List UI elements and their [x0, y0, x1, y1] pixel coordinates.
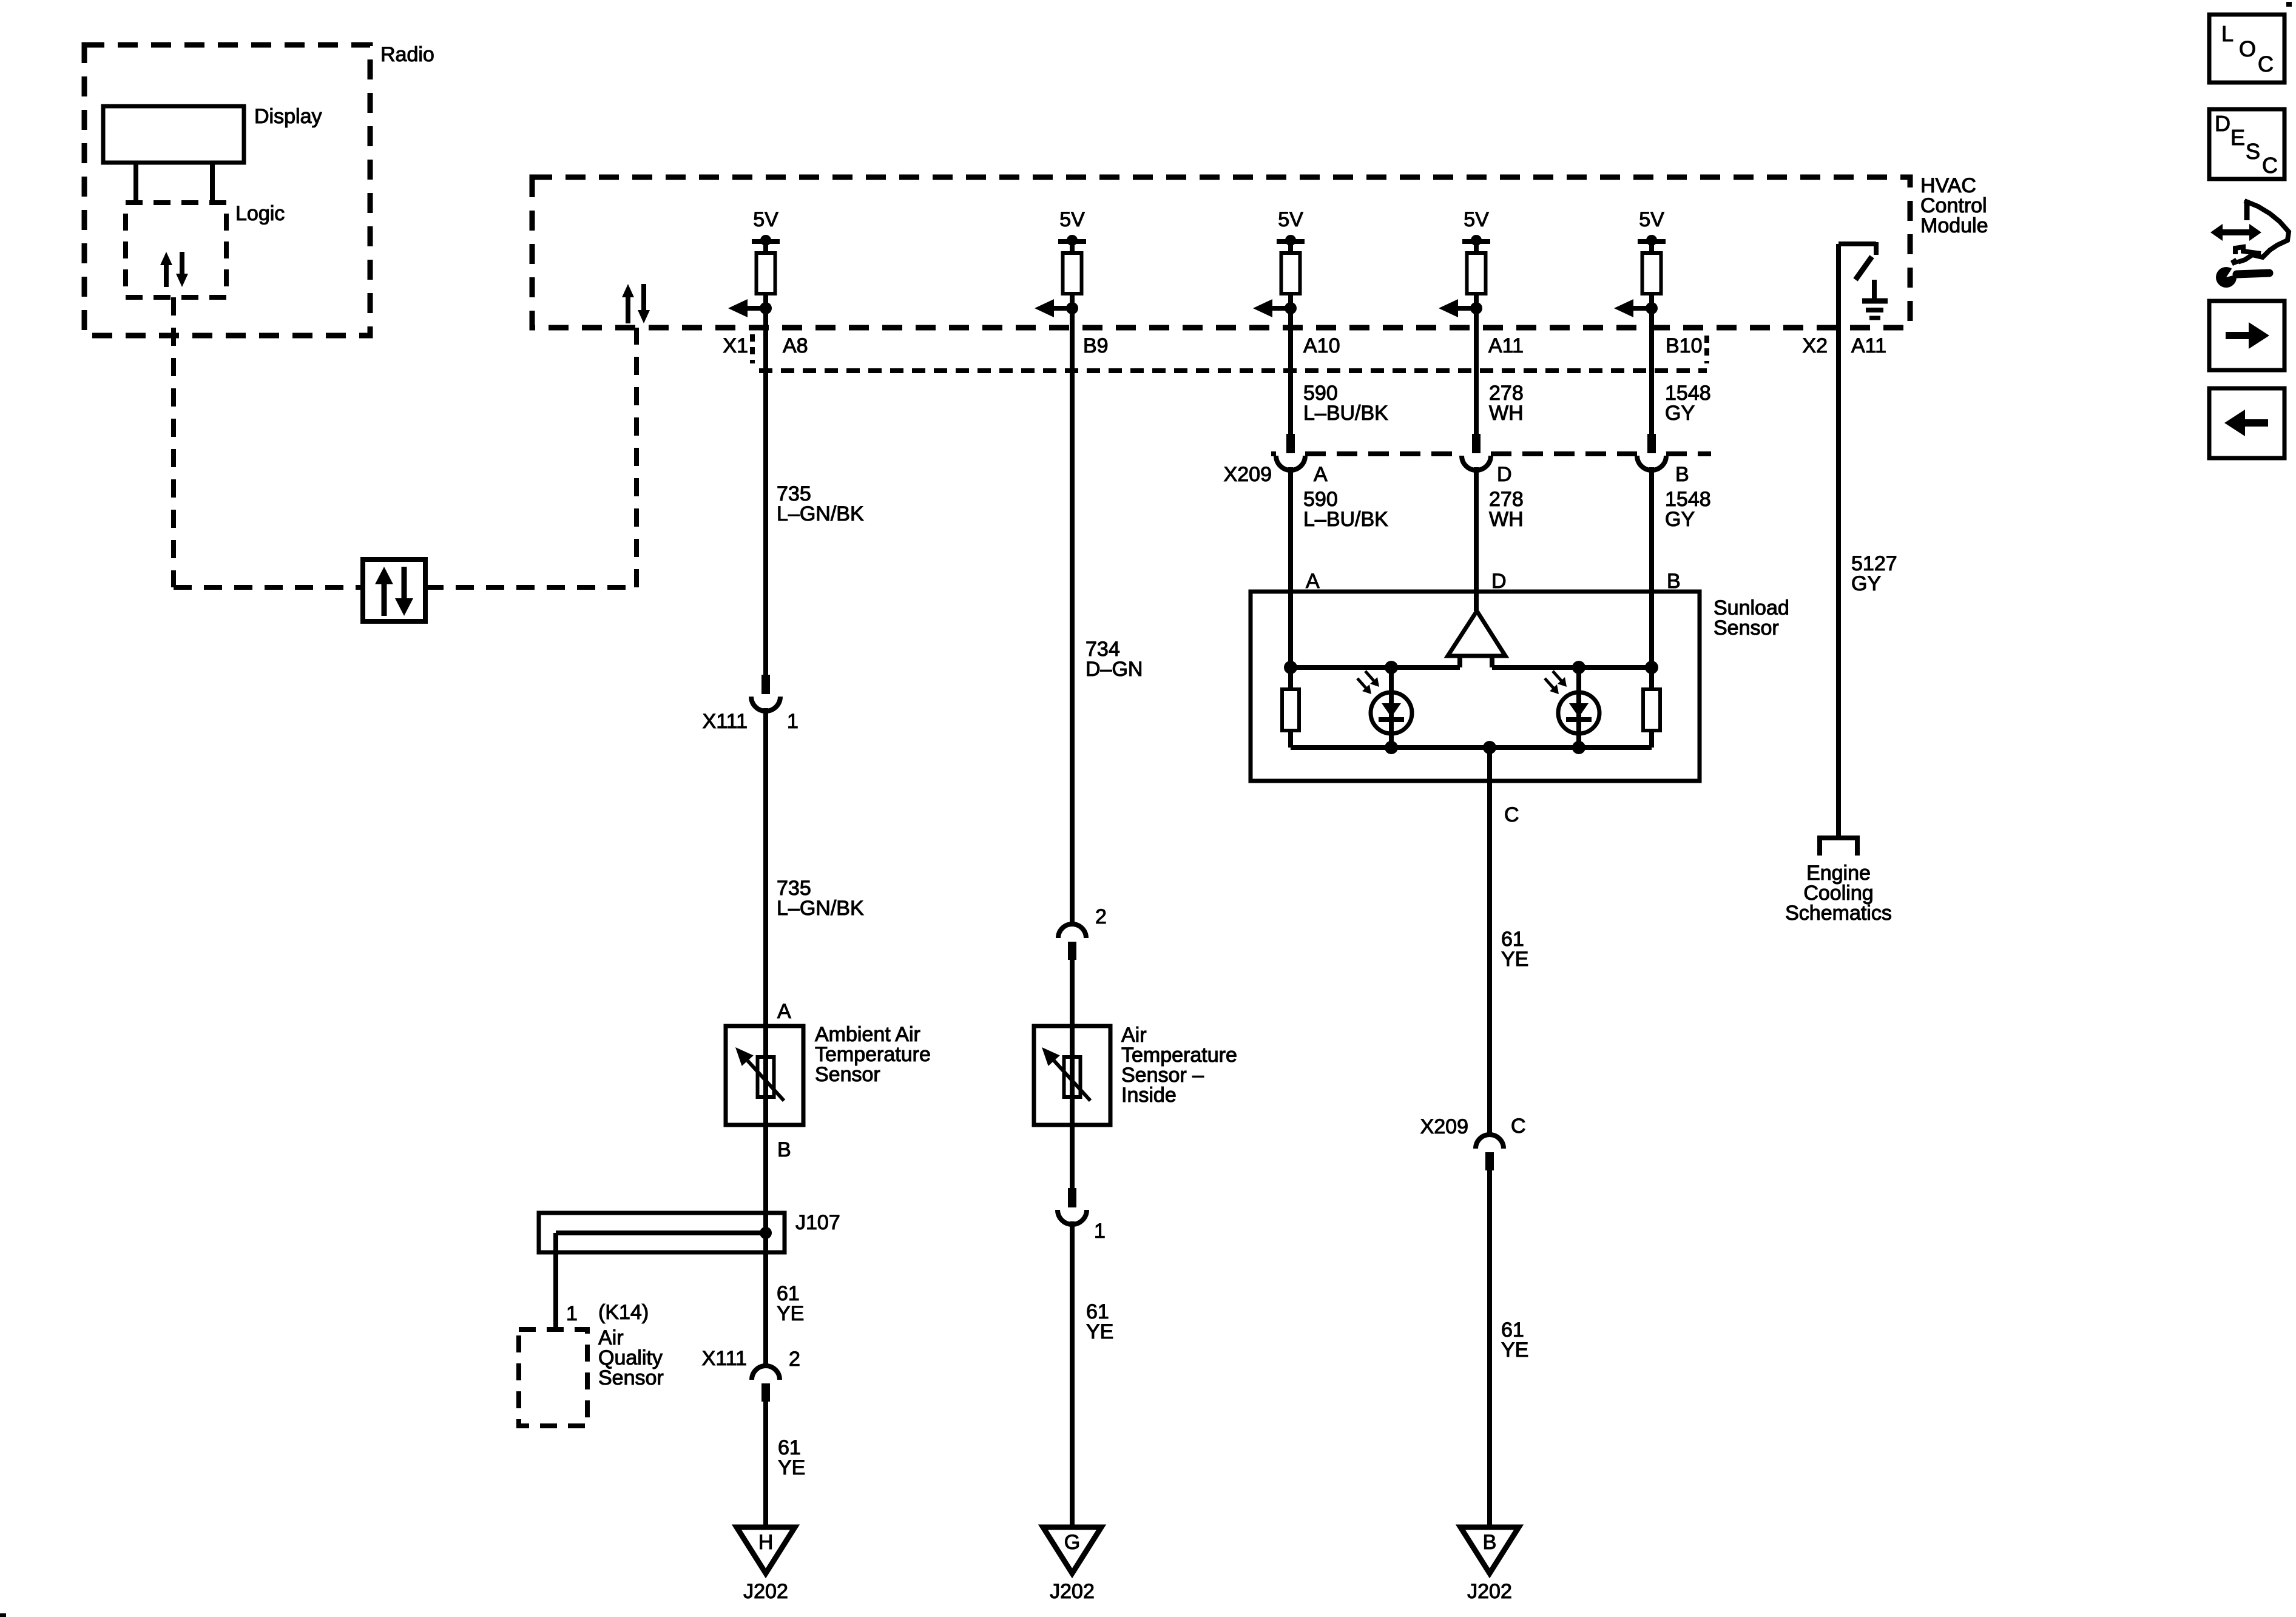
svg-text:X111: X111	[702, 1347, 747, 1370]
node junction A11	[1470, 302, 1482, 314]
Logic block (dashed)	[126, 203, 226, 297]
wire 734 D-GN (B9 down)	[1070, 329, 1075, 924]
forward arrow icon	[2209, 301, 2284, 370]
wire 5V to resistor B10	[1649, 241, 1654, 254]
5V rail bar (B9)	[1058, 239, 1086, 244]
svg-text:(K14): (K14)	[598, 1301, 649, 1324]
svg-text:C: C	[2258, 52, 2274, 76]
svg-text:J202: J202	[743, 1580, 788, 1603]
svg-text:H: H	[758, 1531, 774, 1554]
svg-text:GY: GY	[1851, 572, 1881, 595]
svg-text:Radio: Radio	[380, 43, 434, 66]
resistor (sunload left)	[1288, 667, 1293, 689]
svg-text:B9: B9	[1083, 334, 1109, 357]
svg-text:B: B	[1667, 570, 1681, 593]
thermistor (ambient)	[758, 1057, 774, 1097]
svg-text:Sensor: Sensor	[598, 1366, 664, 1389]
photodiode (left)	[1389, 667, 1394, 748]
svg-text:WH: WH	[1489, 508, 1524, 531]
svg-text:J202: J202	[1467, 1580, 1512, 1603]
svg-text:YE: YE	[777, 1302, 804, 1325]
connector X209 pin B	[1647, 434, 1656, 453]
wrench	[2216, 267, 2237, 288]
off-page connector (engine cooling)	[1820, 838, 1857, 856]
wire 735 L-GN/BK (A8 to X111)	[763, 329, 768, 675]
svg-text:X1: X1	[723, 334, 748, 357]
wire 5V to resistor A11	[1474, 241, 1479, 254]
wire 5V to resistor B9	[1070, 241, 1075, 254]
Air Temperature Sensor - Inside	[1070, 1026, 1075, 1125]
5V rail bar (A11)	[1462, 239, 1490, 244]
wire display to logic (left)	[133, 163, 138, 205]
svg-text:WH: WH	[1489, 402, 1524, 425]
signal input arrow (A11)	[1458, 306, 1476, 311]
double arrow	[2222, 229, 2250, 235]
adjust/repair hand icon	[2235, 200, 2289, 263]
svg-text:2: 2	[789, 1348, 800, 1371]
svg-text:D: D	[1491, 570, 1507, 593]
serial data wire (dashed) radio to splice box	[171, 297, 176, 587]
pull-up resistor (B9)	[1063, 253, 1082, 294]
svg-text:5V: 5V	[753, 208, 778, 231]
photodiode (right)	[1576, 667, 1581, 748]
LOC icon	[2209, 15, 2284, 83]
svg-text:A11: A11	[1851, 334, 1886, 357]
svg-text:A: A	[1306, 570, 1320, 593]
ground switch inside module (X2 A11)	[1838, 241, 1876, 246]
wires X209 to sunload sensor	[1288, 467, 1293, 667]
svg-text:C: C	[1504, 803, 1519, 826]
Radio module (dashed enclosure)	[84, 45, 370, 336]
svg-text:B: B	[777, 1138, 791, 1161]
wire B10 to X209	[1649, 329, 1654, 434]
HVAC Control Module (dashed enclosure)	[532, 177, 1910, 328]
svg-text:C: C	[1511, 1115, 1526, 1138]
svg-text:O: O	[2239, 36, 2256, 61]
node junction A8	[760, 302, 772, 314]
svg-text:A: A	[1314, 463, 1328, 486]
5V rail bar (A8)	[752, 239, 780, 244]
pull-up resistor (A11)	[1467, 253, 1486, 294]
svg-text:C: C	[2262, 153, 2278, 178]
wire J107 to air quality sensor	[553, 1233, 558, 1329]
wire 5V to resistor A8	[763, 241, 768, 254]
svg-text:L–BU/BK: L–BU/BK	[1303, 402, 1388, 425]
svg-text:Module: Module	[1920, 214, 1988, 237]
svg-text:Display: Display	[254, 105, 322, 128]
svg-text:5V: 5V	[1639, 208, 1664, 231]
svg-text:A: A	[777, 1000, 791, 1023]
wire 735 L-GN/BK (X111 to sensor)	[763, 708, 768, 1026]
svg-text:B: B	[1675, 463, 1689, 486]
wire A11 to X209	[1474, 329, 1479, 434]
svg-text:G: G	[1064, 1531, 1080, 1554]
top bus wire	[1291, 665, 1460, 670]
signal input arrow (B10)	[1633, 306, 1652, 311]
svg-text:B: B	[1483, 1531, 1497, 1554]
svg-text:J202: J202	[1050, 1580, 1095, 1603]
connector pin 2 (inside sensor)	[1058, 924, 1086, 938]
serial data wire (dashed) box to HVAC module	[425, 585, 636, 590]
ground splice J202 (G)	[1043, 1527, 1101, 1573]
connector X209 pin A	[1286, 434, 1295, 453]
pull-up resistor (A10)	[1281, 253, 1300, 294]
svg-text:B10: B10	[1666, 334, 1703, 357]
svg-text:YE: YE	[1501, 1338, 1528, 1362]
thermistor (inside)	[1064, 1057, 1081, 1097]
svg-text:Sensor: Sensor	[1714, 616, 1779, 640]
svg-text:YE: YE	[1086, 1320, 1113, 1343]
DESC icon	[2209, 109, 2284, 179]
connector X111 pin 2	[752, 1366, 780, 1380]
pull-up resistor (A8)	[757, 253, 775, 294]
serial data arrows (HVAC module)	[626, 297, 630, 323]
svg-text:L: L	[2221, 21, 2234, 46]
signal input arrow (A10)	[1272, 306, 1291, 311]
wire A10 to X209	[1288, 329, 1293, 434]
connector X1 (dotted line)	[759, 368, 1707, 373]
wire resistor to node B9	[1070, 294, 1075, 329]
serial data arrows (Radio logic)	[164, 265, 169, 287]
pull-up resistor (B10)	[1643, 253, 1661, 294]
svg-text:1: 1	[566, 1302, 578, 1325]
wire 61 YE (sunload C)	[1487, 748, 1492, 1135]
svg-text:YE: YE	[1501, 948, 1528, 971]
svg-text:1: 1	[787, 710, 799, 733]
wire 61 YE (sensor to J107)	[763, 1125, 768, 1366]
svg-text:J107: J107	[795, 1211, 840, 1234]
corner marks	[2286, 2, 2292, 7]
signal input arrow (A8)	[748, 306, 766, 311]
svg-text:GY: GY	[1665, 402, 1695, 425]
svg-text:L–GN/BK: L–GN/BK	[777, 897, 864, 920]
svg-text:5V: 5V	[1278, 208, 1303, 231]
svg-text:5V: 5V	[1464, 208, 1489, 231]
svg-text:L–BU/BK: L–BU/BK	[1303, 508, 1388, 531]
wire resistor to node A8	[763, 294, 768, 329]
connector X111 pin 1	[761, 675, 770, 694]
Display	[103, 106, 244, 163]
wire resistor to node A10	[1288, 294, 1293, 329]
photon arrows	[1545, 678, 1555, 689]
svg-text:Sensor: Sensor	[815, 1063, 880, 1086]
svg-text:A11: A11	[1488, 334, 1524, 357]
svg-text:Inside: Inside	[1121, 1084, 1177, 1107]
connector X209 (dashed line)	[1271, 451, 1276, 456]
node junction B9	[1066, 302, 1078, 314]
svg-text:A10: A10	[1303, 334, 1340, 357]
svg-text:2: 2	[1095, 905, 1107, 928]
bottom bus wire	[1291, 745, 1652, 750]
svg-text:GY: GY	[1665, 508, 1695, 531]
svg-text:S: S	[2246, 139, 2260, 164]
svg-text:D: D	[1497, 463, 1512, 486]
svg-text:1: 1	[1094, 1220, 1106, 1243]
splice J107	[539, 1213, 785, 1252]
wire 5V to resistor A10	[1288, 241, 1293, 254]
svg-text:Schematics: Schematics	[1785, 902, 1892, 925]
svg-text:YE: YE	[778, 1456, 805, 1479]
5V rail bar (B10)	[1638, 239, 1666, 244]
wire 61 YE (mid)	[1070, 1221, 1075, 1527]
svg-text:X209: X209	[1420, 1115, 1468, 1138]
node junction A10	[1285, 302, 1297, 314]
svg-text:Logic: Logic	[235, 202, 285, 225]
svg-text:X209: X209	[1224, 463, 1272, 486]
5V rail bar (A10)	[1277, 239, 1305, 244]
wire resistor to node A11	[1474, 294, 1479, 329]
serial data link symbol box	[363, 559, 425, 621]
wire display to logic (right)	[210, 163, 215, 205]
op-amp (sunload amplifier)	[1448, 611, 1505, 656]
photon arrows	[1357, 678, 1367, 689]
connector pin 1 (inside sensor)	[1070, 1125, 1075, 1188]
svg-text:L–GN/BK: L–GN/BK	[777, 502, 864, 525]
svg-text:5V: 5V	[1059, 208, 1085, 231]
Ambient Air Temperature Sensor	[763, 1026, 768, 1125]
svg-text:D–GN: D–GN	[1086, 658, 1143, 681]
ground splice J202 (B)	[1460, 1527, 1519, 1573]
back arrow icon	[2209, 388, 2284, 458]
connector X209 pin C	[1476, 1135, 1504, 1149]
ground symbol	[1872, 280, 1877, 299]
node junction B10	[1646, 302, 1658, 314]
Sunload Sensor box	[1251, 592, 1700, 781]
svg-text:A8: A8	[783, 334, 808, 357]
svg-text:X2: X2	[1802, 334, 1828, 357]
svg-text:E: E	[2230, 125, 2245, 150]
ground splice J202 (H)	[737, 1527, 795, 1573]
wire resistor to node B10	[1649, 294, 1654, 329]
connector X209 pin D	[1472, 434, 1481, 453]
svg-text:X111: X111	[703, 710, 748, 733]
resistor (sunload right)	[1649, 667, 1654, 689]
svg-text:D: D	[2215, 111, 2230, 136]
signal input arrow (B9)	[1054, 306, 1072, 311]
wire X2-A11 (ground sense)	[1836, 244, 1841, 838]
